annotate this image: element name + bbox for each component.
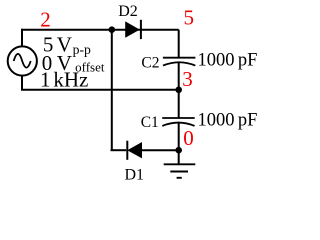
voltage source V1 circle (8, 46, 37, 75)
wire: crossover corner to D1 cathode (111, 149, 127, 151)
junction dot node 0 (175, 147, 182, 154)
diode D1 triangle (128, 143, 141, 158)
wire: node 0 to ground (178, 150, 180, 164)
ground symbol (164, 164, 196, 178)
svg-text:D2: D2 (118, 3, 138, 20)
junction dot node 2 (109, 26, 116, 33)
wire: top wire from source to node-5 corner (net 2) (22, 29, 179, 31)
wire: D1 to node 0 (142, 149, 179, 151)
sine wave inside source (14, 54, 31, 68)
wire: node 3 down to C1 (178, 90, 180, 118)
svg-text:p-p: p-p (73, 42, 91, 57)
svg-text:C1: C1 (141, 114, 159, 131)
svg-text:5: 5 (184, 6, 195, 30)
svg-text:2: 2 (40, 8, 51, 32)
wire: source bottom stub (21, 75, 23, 90)
junction dot node 3 (175, 87, 182, 94)
svg-text:0: 0 (183, 126, 194, 150)
svg-text:3: 3 (182, 67, 193, 91)
svg-text:1000pF: 1000pF (198, 51, 258, 71)
diode D2 cathode bar (140, 20, 142, 39)
wire: bottom wire from source to node 3 (net 3) (21, 89, 179, 91)
diode D2 triangle (126, 22, 139, 37)
svg-text:1kHz: 1kHz (40, 67, 88, 91)
capacitor C1 top plate (162, 117, 195, 119)
wire: C2 bottom to node 3 (178, 63, 180, 90)
wire: source top stub (21, 29, 23, 47)
svg-text:D1: D1 (125, 167, 145, 184)
wire: C1 bottom to node 0 (178, 123, 180, 150)
wire: vertical crossover wire from node-2 junction down to D1 (111, 30, 113, 151)
capacitor C2 top plate (163, 57, 196, 59)
capacitor C2 curved plate (163, 62, 195, 65)
wire: node 5 vertical down to C2 (178, 30, 180, 58)
capacitor C1 curved plate (162, 123, 194, 126)
svg-text:1000pF: 1000pF (198, 111, 258, 131)
diode D1 cathode bar (126, 141, 128, 160)
svg-text:C2: C2 (141, 55, 159, 72)
